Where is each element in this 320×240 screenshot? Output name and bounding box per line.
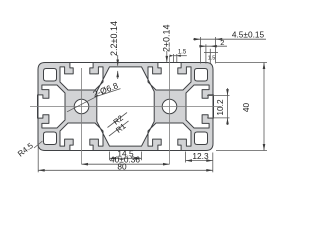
dim 10.2: [227, 88, 229, 125]
dim 80: [38, 169, 213, 171]
svg-text:10.2: 10.2: [215, 99, 225, 116]
dim 2.2±0.14: [117, 55, 119, 66]
horizontal centerline: [30, 106, 222, 108]
svg-text:80: 80: [117, 162, 127, 172]
label R4.5 leader: [34, 141, 43, 148]
svg-text:1.5: 1.5: [208, 56, 216, 62]
dim 1.5: [174, 55, 187, 57]
dim 12.3 extension line: [185, 152, 187, 163]
dim 1.5 right: [204, 51, 218, 53]
dim 14.5 extension lines: [109, 152, 111, 161]
svg-text:40: 40: [241, 103, 251, 113]
left hole vertical centerline: [81, 68, 83, 164]
aluminium profile cross-section body: [38, 63, 214, 151]
svg-text:1.5: 1.5: [178, 49, 187, 55]
dim 80 extension lines: [37, 144, 39, 172]
svg-text:4.5±0.15: 4.5±0.15: [232, 30, 265, 40]
label R1 leader: [109, 121, 129, 136]
label R2 leader: [108, 113, 128, 128]
dim 2 extension line: [205, 44, 207, 63]
dim 4.5±0.15: [193, 38, 223, 40]
dim 40 extension lines: [216, 62, 267, 64]
dim 40±0.36: [82, 163, 170, 165]
dim 14.5: [110, 157, 142, 159]
right hole vertical centerline: [169, 56, 171, 164]
dim 12.3: [186, 160, 213, 162]
dim 10.2 extension lines: [207, 95, 230, 97]
label 2-Ø6.8 leader: [67, 96, 97, 112]
dim 2±0.14: [166, 51, 168, 62]
svg-text:12.3: 12.3: [192, 151, 209, 161]
svg-text:2.2±0.14: 2.2±0.14: [109, 21, 119, 56]
svg-text:2±0.14: 2±0.14: [161, 25, 171, 52]
svg-text:2: 2: [220, 38, 224, 47]
dim 4.5±0.15 extension lines: [199, 37, 201, 64]
dim 2: [201, 45, 228, 47]
dim 40: [263, 63, 265, 151]
